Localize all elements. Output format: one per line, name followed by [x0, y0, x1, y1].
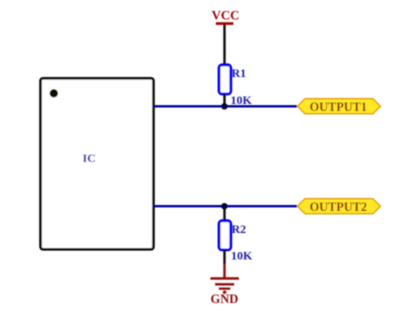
ground symbol	[210, 264, 239, 294]
svg-text:OUTPUT1: OUTPUT1	[310, 100, 367, 114]
node B junction	[221, 203, 227, 209]
svg-text:10K: 10K	[231, 249, 253, 263]
svg-text:OUTPUT2: OUTPUT2	[310, 200, 367, 214]
svg-text:R2: R2	[232, 222, 247, 236]
wire IC pin1 to node A	[153, 105, 225, 107]
svg-text:IC: IC	[83, 151, 96, 165]
wire R2 to ground	[223, 250, 225, 264]
svg-text:10K: 10K	[231, 93, 253, 107]
wire R1 to node A	[223, 94, 225, 106]
net flag OUTPUT1	[298, 99, 381, 114]
IC box	[41, 78, 154, 249]
power VCC symbol	[212, 9, 240, 25]
svg-text:R1: R1	[232, 66, 247, 80]
wire node B to OUTPUT2	[224, 205, 297, 207]
pin-1 marker dot	[50, 89, 58, 97]
svg-text:VCC: VCC	[212, 9, 240, 23]
wire IC pin2 to node B	[153, 205, 225, 207]
svg-text:GND: GND	[211, 292, 239, 306]
resistor R2	[219, 221, 231, 250]
wire node A to OUTPUT1	[224, 105, 297, 107]
wire node B to R2	[223, 206, 225, 221]
net flag OUTPUT2	[298, 199, 381, 214]
resistor R1	[219, 65, 231, 94]
node A junction	[221, 103, 227, 109]
wire VCC to R1	[223, 25, 225, 66]
